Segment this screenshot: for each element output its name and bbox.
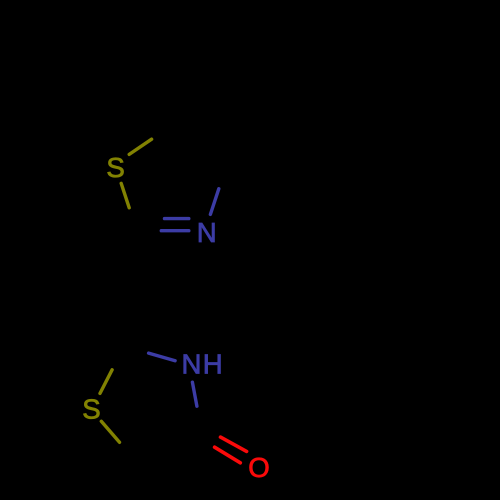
bond S1-C5 (thiazole, sulfur half) bbox=[129, 139, 151, 154]
bond N3-C4 (thiazole, nitrogen half) bbox=[210, 189, 218, 215]
svg-text:N: N bbox=[182, 348, 202, 379]
carbonyl C4'=O main line (oxygen half) bbox=[215, 447, 241, 463]
double bond C2=N3 main line (nitrogen half) bbox=[161, 229, 189, 232]
bond S1'-C5' (thiazolidinone, sulfur half) bbox=[101, 421, 119, 442]
svg-text:O: O bbox=[248, 452, 269, 483]
bond S1-C2 (thiazole, sulfur half) bbox=[121, 183, 129, 207]
bond S1'-C2' (thiazolidinone, sulfur half) bbox=[100, 370, 112, 394]
bond N3'-C4' (nitrogen half) bbox=[192, 382, 197, 406]
bond C2'-N3' (nitrogen half) bbox=[149, 353, 176, 361]
svg-text:S: S bbox=[106, 152, 124, 183]
svg-text:N: N bbox=[197, 217, 217, 248]
svg-text:S: S bbox=[82, 393, 100, 424]
double bond C2=N3 inner line (nitrogen half) bbox=[165, 217, 189, 220]
svg-text:H: H bbox=[203, 348, 223, 379]
carbonyl C4'=O inner line (oxygen half) bbox=[221, 437, 247, 451]
